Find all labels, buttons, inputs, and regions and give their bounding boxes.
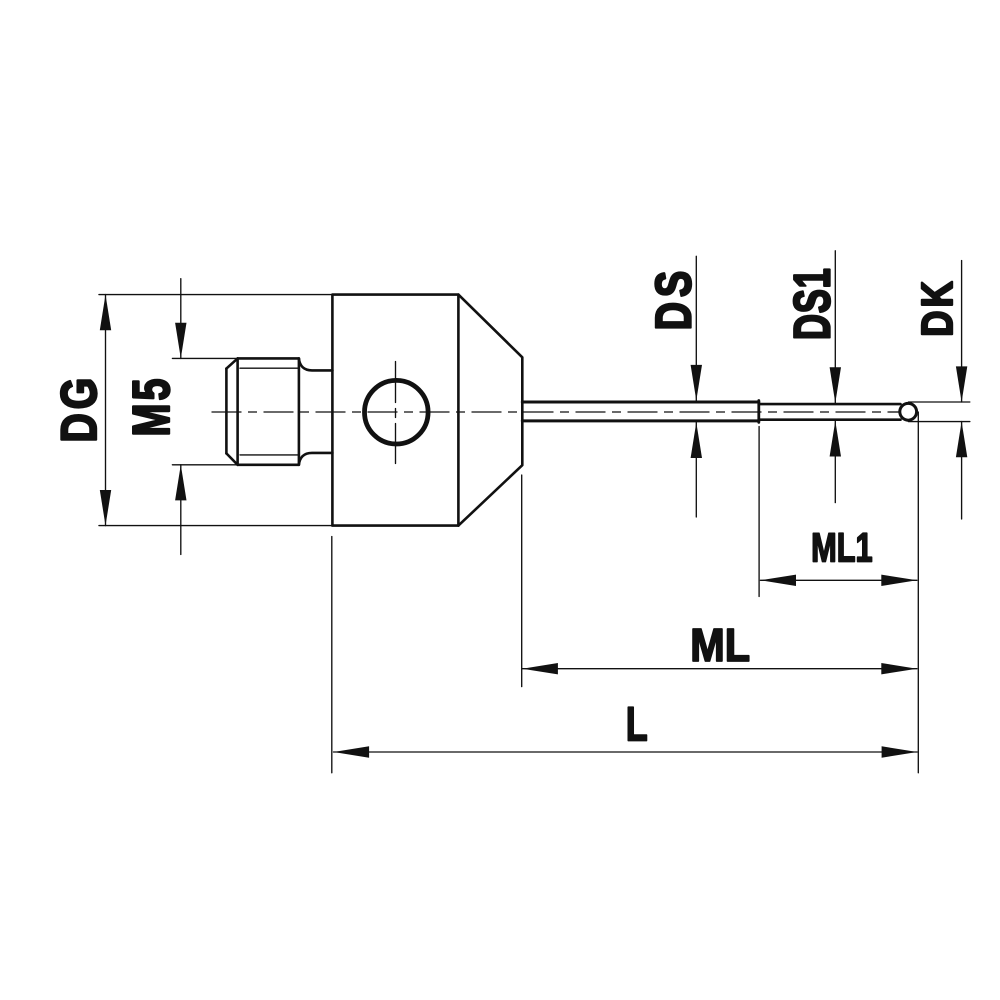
dimension M5	[172, 279, 237, 555]
dimension ML1	[759, 412, 918, 773]
thread M5 chamfer face	[226, 358, 237, 464]
stem step	[757, 401, 760, 423]
svg-text:DK: DK	[913, 278, 962, 337]
svg-text:ML1: ML1	[811, 524, 872, 570]
holder cone	[458, 295, 522, 526]
dimension DS1	[830, 251, 841, 503]
dimension DK	[909, 261, 970, 519]
thread neck relief	[299, 358, 333, 464]
svg-text:DS: DS	[645, 266, 702, 330]
dimension DS	[691, 256, 702, 517]
svg-text:DS1: DS1	[785, 268, 842, 341]
ball tip DK	[900, 403, 917, 420]
svg-text:M5: M5	[122, 375, 181, 436]
dimension DG	[99, 295, 332, 526]
svg-text:ML: ML	[690, 620, 750, 672]
dimension ML	[522, 475, 917, 687]
thread M5 body	[238, 358, 299, 464]
svg-text:DG: DG	[51, 374, 107, 443]
svg-text:L: L	[626, 698, 648, 751]
centerline axis	[212, 411, 902, 413]
holder body	[332, 295, 458, 526]
stem DS1 section	[759, 404, 901, 420]
cross hole	[365, 362, 429, 464]
stem DS section	[522, 402, 759, 421]
dimension L	[332, 537, 917, 773]
